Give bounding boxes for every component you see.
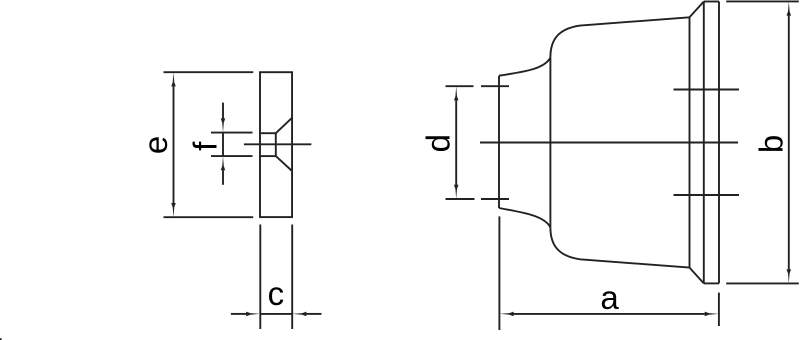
dimension d: label d [420, 134, 457, 152]
dimension b: label b [753, 135, 790, 153]
dimension c: arrow left (outside right) [292, 312, 306, 317]
left view: bore top line [260, 132, 276, 134]
dimension e: arrow down [171, 203, 176, 217]
dimension e: bottom extension line [164, 216, 254, 218]
dimension e: label e [137, 136, 174, 154]
dimension f: arrow down (outside, above) [221, 118, 226, 132]
right view: flange mid vertical [703, 2, 705, 284]
right view: flange bottom chamfer [690, 268, 704, 284]
svg-text:a: a [600, 279, 619, 316]
right view: bore tick upper right [674, 89, 740, 91]
dimension f: top extension line [211, 132, 253, 134]
right view: centerline [480, 142, 738, 144]
right view: opening edge vertical [498, 76, 500, 208]
dimension e: top extension line [164, 71, 254, 73]
right view: top shoulder and slope [550, 17, 689, 57]
right view: top lip curve [499, 57, 550, 75]
dimension c: left extension line [259, 225, 261, 330]
right view: neck crease line [549, 57, 551, 227]
dimension d: dimension line [455, 100, 457, 185]
dimension d: lower extension line [446, 198, 475, 200]
dimension b: arrow up [787, 1, 792, 15]
dimension d: arrow down [454, 185, 459, 199]
svg-text:b: b [753, 135, 790, 153]
dimension b: dimension line [788, 15, 790, 269]
dimension b: top extension line [726, 0, 799, 2]
right view: bottom shoulder and slope [550, 227, 689, 267]
dimension f: arrow up (outside, below) [221, 156, 226, 170]
dimension a: arrow left [499, 312, 513, 317]
dimension f: label f [187, 141, 224, 151]
right view: flange top chamfer [690, 2, 704, 18]
left view: countersink upper diagonal [276, 118, 292, 133]
dimension f: dimension line [222, 103, 224, 119]
dimension c: inner thin dimension line [260, 313, 292, 315]
left view: countersink lower diagonal [276, 156, 292, 171]
dimension a: right extension line [718, 293, 720, 326]
dimension c: right extension line [291, 225, 293, 330]
dimension c: left tail of dimension line [231, 313, 246, 315]
left view: bore bottom line [260, 155, 276, 157]
svg-text:f: f [187, 141, 224, 151]
right view: bore tick upper left [481, 85, 509, 87]
dimension e: dimension line [173, 86, 175, 203]
right view: flange top edge [704, 1, 719, 3]
dimension c: arrow right (outside left) [246, 312, 260, 317]
right view: bore tick lower left [481, 198, 509, 200]
right view: flange front line [689, 17, 691, 267]
dimension b: arrow down [787, 269, 792, 283]
dimension a: left extension line [498, 216, 500, 330]
right view: bore tick lower right [674, 194, 740, 196]
dimension b: bottom extension line [726, 282, 799, 284]
svg-text:e: e [137, 136, 174, 154]
left view: disc outline [260, 72, 292, 217]
right view: flange bottom edge [704, 282, 719, 284]
dimension d: arrow up [454, 86, 459, 100]
corner mark bottom-left [0, 338, 2, 340]
left view: bore end vertical [275, 133, 277, 156]
dimension a: dimension line [513, 313, 705, 315]
dimension e: arrow up [171, 72, 176, 86]
svg-text:d: d [420, 134, 457, 152]
left view: centerline [244, 143, 312, 145]
right view: flange outer vertical [718, 2, 720, 284]
dimension d: upper extension line [446, 85, 474, 87]
dimension c: right tail of dimension line [306, 313, 321, 315]
right view: bottom lip curve [499, 208, 550, 227]
dimension f: bottom extension line [211, 155, 253, 157]
dimension a: arrow right [705, 312, 719, 317]
svg-text:c: c [268, 275, 285, 312]
